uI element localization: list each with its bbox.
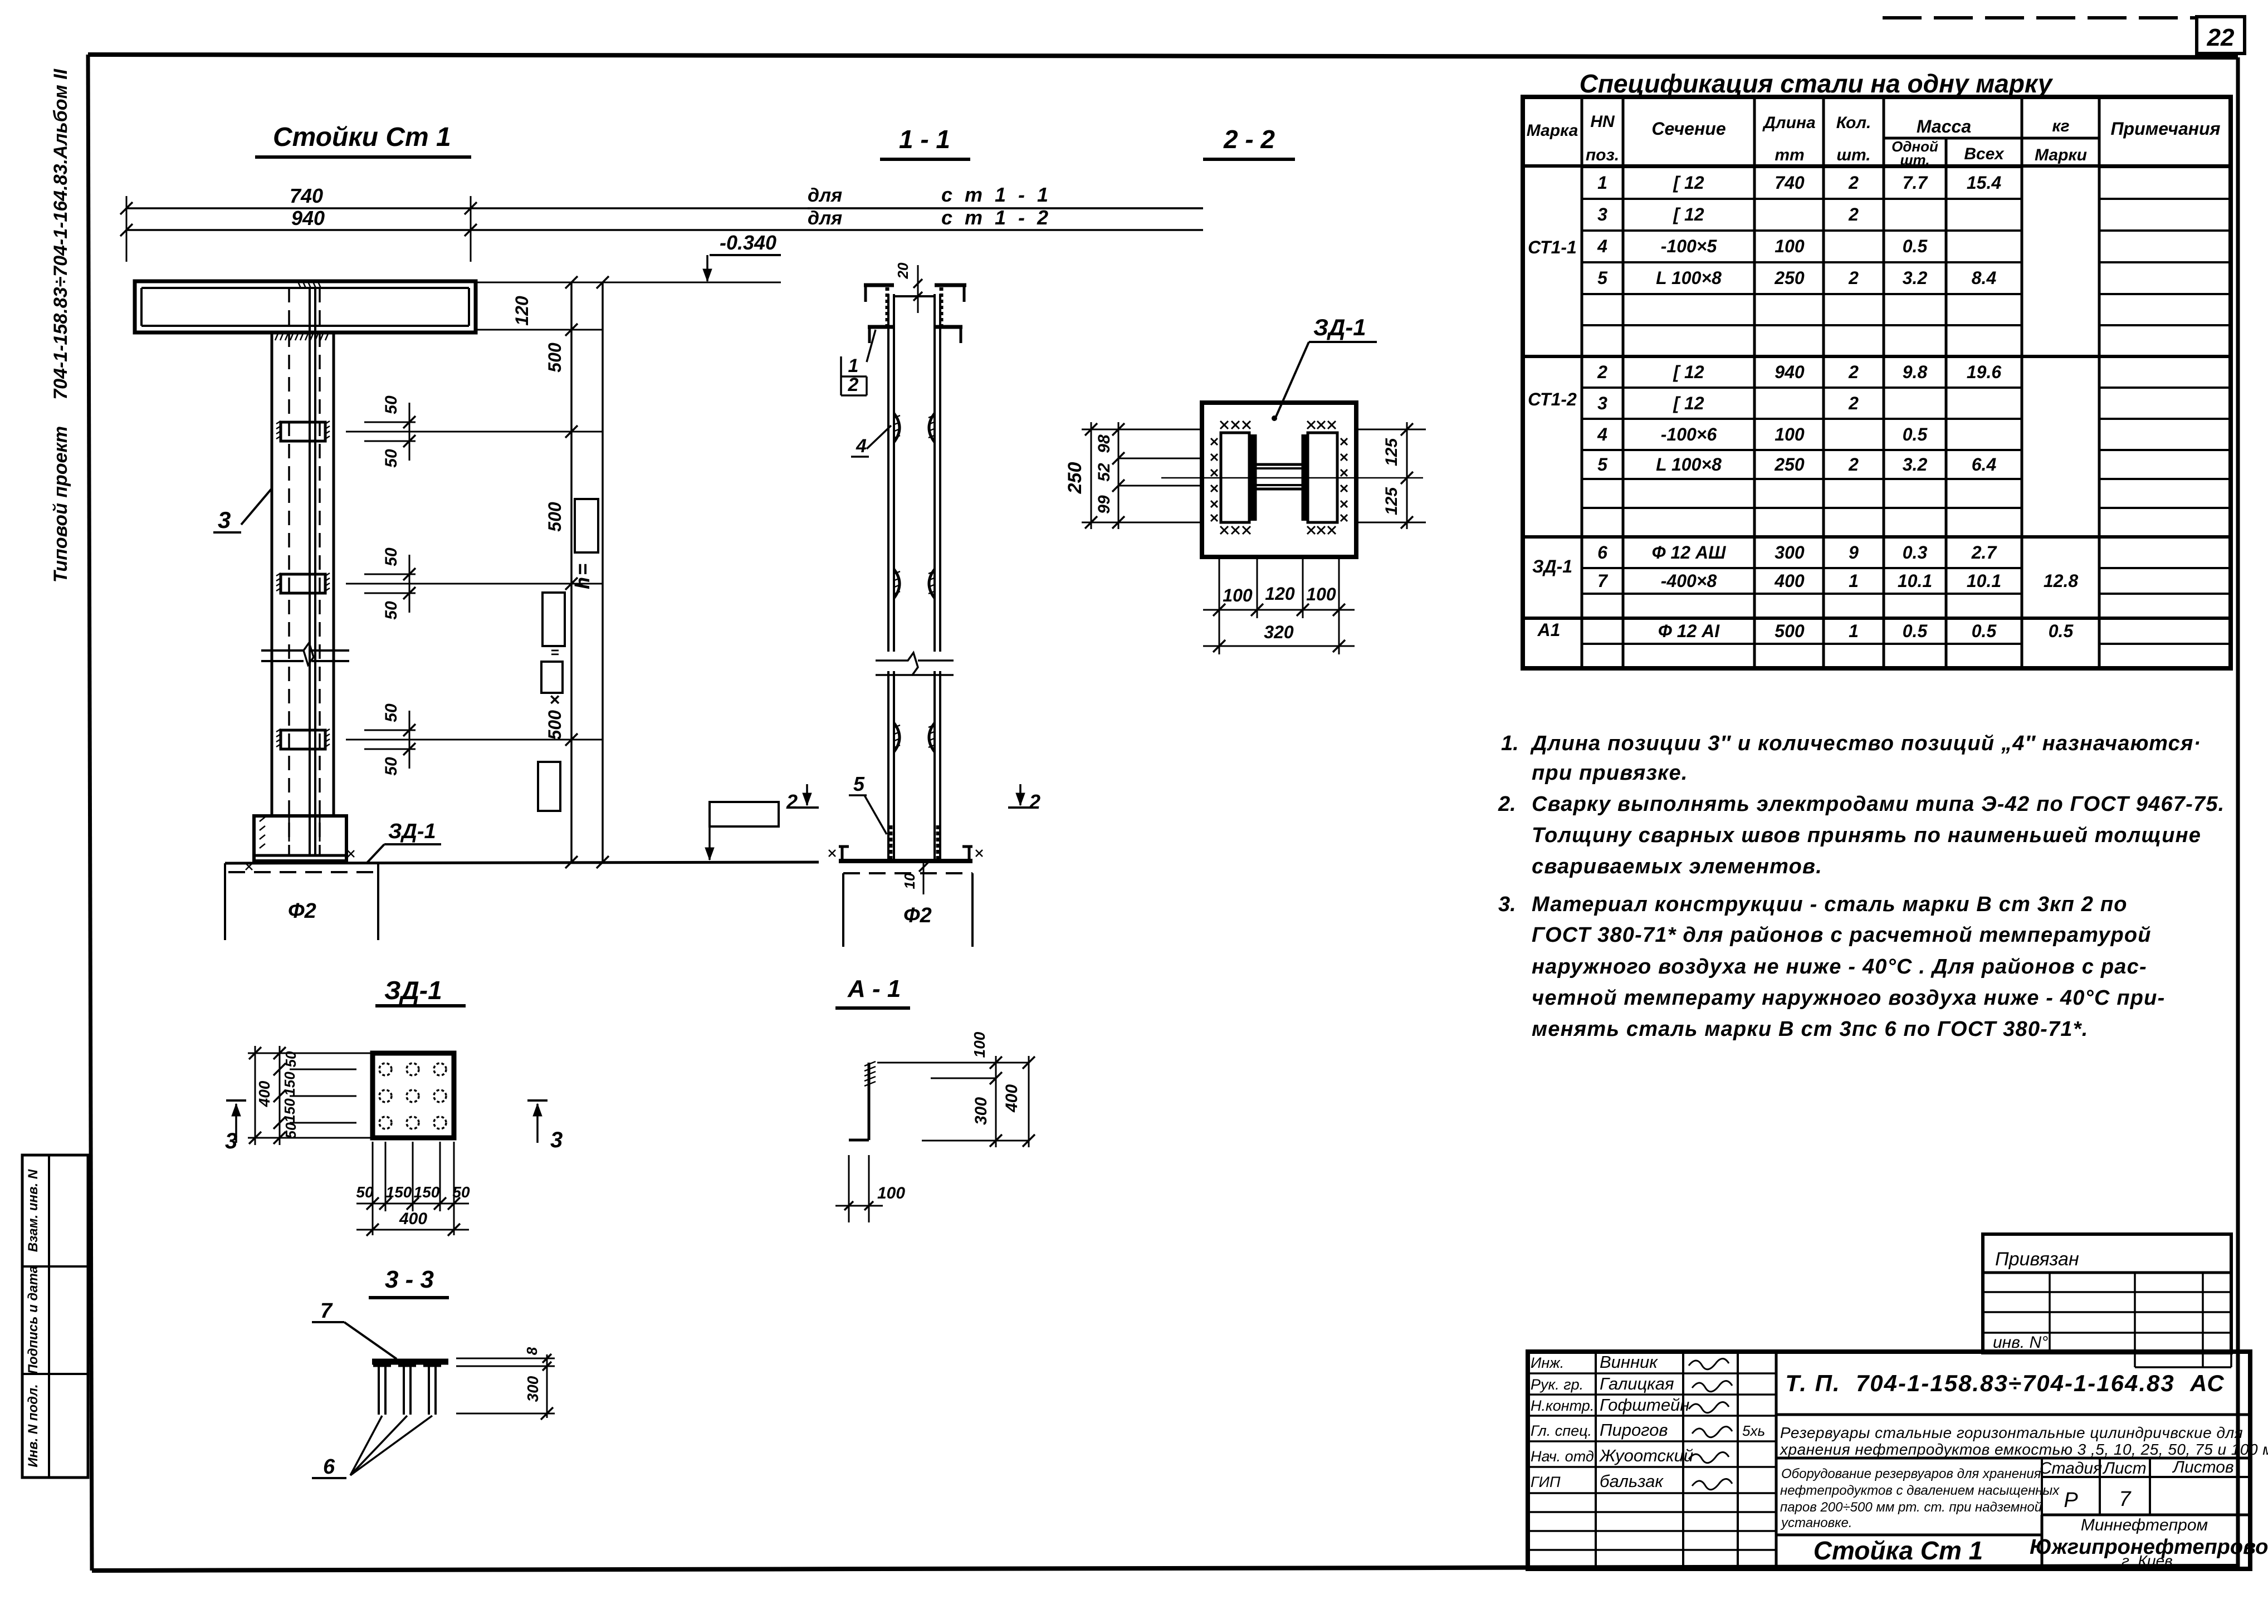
svg-text:Длина позиции 3″ и количест: Длина позиции 3″ и количество позиций „4… bbox=[1530, 732, 2201, 755]
svg-text:для: для bbox=[808, 208, 842, 229]
svg-text:100: 100 bbox=[877, 1184, 905, 1202]
svg-text:500: 500 bbox=[545, 502, 565, 532]
svg-text:5: 5 bbox=[1597, 454, 1608, 475]
svg-text:50: 50 bbox=[382, 601, 400, 620]
svg-text:для: для bbox=[808, 185, 842, 206]
svg-text:Сварку выполнять электродами: Сварку выполнять электродами типа Э-42 п… bbox=[1532, 793, 2225, 816]
svg-text:250: 250 bbox=[1064, 462, 1086, 495]
svg-text:шт.: шт. bbox=[1900, 151, 1929, 168]
svg-text:L 100×8: L 100×8 bbox=[1656, 268, 1722, 288]
svg-text:5: 5 bbox=[1597, 268, 1608, 288]
svg-text:740: 740 bbox=[1775, 173, 1805, 193]
svg-text:2: 2 bbox=[1848, 173, 1859, 193]
svg-text:7: 7 bbox=[320, 1299, 333, 1323]
svg-text:1: 1 bbox=[848, 355, 859, 376]
svg-text:менять сталь марки В ст 3п: менять сталь марки В ст 3пс 6 по ГОСТ 38… bbox=[1532, 1018, 2088, 1041]
svg-text:Привязан: Привязан bbox=[1995, 1249, 2079, 1270]
svg-text:100: 100 bbox=[1775, 236, 1805, 256]
svg-text:400: 400 bbox=[1003, 1084, 1021, 1113]
svg-text:8.4: 8.4 bbox=[1972, 268, 1997, 288]
svg-text:50: 50 bbox=[452, 1183, 470, 1201]
svg-text:Типовой проект 704-1-158.: Типовой проект 704-1-158.83÷704-1-164.83… bbox=[50, 68, 71, 583]
svg-text:СТ1-1: СТ1-1 bbox=[1528, 237, 1577, 257]
svg-text:8: 8 bbox=[524, 1347, 540, 1355]
svg-text:125: 125 bbox=[1382, 438, 1401, 466]
svg-text:Лист: Лист bbox=[2102, 1459, 2146, 1478]
svg-text:А - 1: А - 1 bbox=[847, 975, 901, 1002]
svg-text:320: 320 bbox=[1264, 622, 1294, 642]
svg-text:Стойки Ст 1: Стойки Ст 1 bbox=[273, 123, 451, 152]
svg-text:ЗД-1: ЗД-1 bbox=[384, 976, 442, 1005]
svg-text:4: 4 bbox=[856, 436, 867, 457]
svg-text:СТ1-2: СТ1-2 bbox=[1528, 389, 1577, 409]
svg-text:50: 50 bbox=[382, 395, 400, 414]
svg-text:Всех: Всех bbox=[1964, 145, 2005, 163]
svg-text:кг: кг bbox=[2052, 117, 2069, 135]
svg-text:Винник: Винник bbox=[1600, 1352, 1658, 1372]
svg-text:нефтепродуктов с двалением нас: нефтепродуктов с двалением насыщенных bbox=[1780, 1483, 2060, 1498]
svg-text:h =: h = bbox=[571, 564, 594, 589]
svg-text:15.4: 15.4 bbox=[1967, 173, 2001, 193]
svg-text:ЗД-1: ЗД-1 bbox=[1313, 314, 1366, 340]
svg-text:ГОСТ 380-71* для районов с: ГОСТ 380-71* для районов с расчетной тем… bbox=[1532, 923, 2152, 947]
svg-text:=: = bbox=[550, 644, 559, 661]
svg-text:50: 50 bbox=[282, 1122, 299, 1138]
svg-text:150: 150 bbox=[281, 1098, 298, 1123]
svg-text:Листов: Листов bbox=[2172, 1458, 2233, 1476]
svg-text:2: 2 bbox=[786, 790, 798, 813]
svg-text:5: 5 bbox=[853, 772, 865, 795]
svg-text:0.5: 0.5 bbox=[1903, 236, 1928, 256]
svg-text:Длина: Длина bbox=[1762, 114, 1815, 132]
svg-text:-100×6: -100×6 bbox=[1661, 424, 1717, 444]
svg-text:Сечение: Сечение bbox=[1651, 119, 1726, 139]
svg-text:6.4: 6.4 bbox=[1972, 454, 1997, 475]
svg-text:2.: 2. bbox=[1498, 793, 1516, 816]
svg-text:наружного воздуха не ниже -: наружного воздуха не ниже - 40°С . Для р… bbox=[1532, 955, 2147, 979]
svg-text:0.5: 0.5 bbox=[1903, 424, 1928, 444]
svg-text:500 ×: 500 × bbox=[545, 695, 565, 740]
svg-text:[ 12: [ 12 bbox=[1673, 362, 1704, 382]
svg-text:Ф 12 АІ: Ф 12 АІ bbox=[1658, 621, 1720, 641]
svg-text:10: 10 bbox=[901, 873, 918, 889]
svg-text:Спецификация стали на одну: Спецификация стали на одну марку bbox=[1580, 69, 2054, 98]
svg-text:250: 250 bbox=[1774, 454, 1805, 475]
svg-text:400: 400 bbox=[399, 1210, 427, 1228]
svg-text:740: 740 bbox=[290, 184, 323, 207]
svg-text:2: 2 bbox=[1848, 362, 1859, 382]
svg-text:установке.: установке. bbox=[1780, 1515, 1852, 1530]
svg-text:300: 300 bbox=[1775, 542, 1805, 562]
svg-text:-0.340: -0.340 bbox=[720, 231, 776, 254]
svg-text:250: 250 bbox=[1774, 268, 1805, 288]
svg-text:22: 22 bbox=[2207, 24, 2235, 51]
svg-text:Масса: Масса bbox=[1917, 116, 1971, 136]
svg-text:Стойка Ст 1: Стойка Ст 1 bbox=[1814, 1536, 1983, 1565]
svg-text:[ 12: [ 12 bbox=[1673, 393, 1704, 413]
svg-text:Кол.: Кол. bbox=[1836, 114, 1871, 132]
svg-text:ЗД-1: ЗД-1 bbox=[388, 820, 436, 843]
svg-text:10.1: 10.1 bbox=[1898, 571, 1932, 591]
svg-text:Материал конструкции - сталь: Материал конструкции - сталь марки В ст … bbox=[1532, 893, 2128, 916]
svg-text:3: 3 bbox=[1597, 393, 1607, 413]
svg-text:99: 99 bbox=[1095, 495, 1113, 514]
svg-text:инв. N°: инв. N° bbox=[1993, 1333, 2048, 1352]
svg-text:50: 50 bbox=[382, 703, 400, 722]
svg-text:Инв. N подл.: Инв. N подл. bbox=[26, 1384, 41, 1467]
svg-text:Взам. инв. N: Взам. инв. N bbox=[26, 1169, 41, 1252]
svg-text:-100×5: -100×5 bbox=[1661, 236, 1718, 256]
svg-text:940: 940 bbox=[291, 207, 325, 229]
svg-text:хранения нефтепродуктов емкост: хранения нефтепродуктов емкостью 3 ,5, 1… bbox=[1779, 1441, 2268, 1458]
svg-text:50: 50 bbox=[356, 1183, 374, 1201]
svg-text:52: 52 bbox=[1095, 463, 1113, 482]
svg-text:940: 940 bbox=[1775, 362, 1805, 382]
svg-text:150: 150 bbox=[386, 1183, 412, 1201]
svg-text:2: 2 bbox=[1848, 454, 1859, 475]
svg-text:mm: mm bbox=[1775, 146, 1804, 164]
svg-text:Толщину сварных швов принят: Толщину сварных швов принять по наименьш… bbox=[1532, 824, 2201, 847]
svg-text:[ 12: [ 12 bbox=[1673, 173, 1704, 193]
svg-text:ГИП: ГИП bbox=[1531, 1474, 1561, 1490]
svg-text:400: 400 bbox=[256, 1080, 273, 1107]
svg-text:Т. П. 704-1-158.83÷704-1-164.: Т. П. 704-1-158.83÷704-1-164.83 АС bbox=[1785, 1370, 2225, 1396]
svg-text:четной температу наружного: четной температу наружного воздуха ниже … bbox=[1532, 986, 2165, 1010]
svg-text:Гл. спец.: Гл. спец. bbox=[1531, 1422, 1592, 1439]
svg-text:0.3: 0.3 bbox=[1903, 542, 1928, 562]
svg-text:125: 125 bbox=[1382, 487, 1401, 515]
svg-text:Ф2: Ф2 bbox=[288, 899, 316, 923]
svg-text:Рук. гр.: Рук. гр. bbox=[1531, 1376, 1583, 1393]
svg-text:3.: 3. bbox=[1498, 893, 1516, 916]
svg-text:100: 100 bbox=[1223, 585, 1253, 605]
svg-text:2: 2 bbox=[1848, 393, 1859, 413]
svg-text:А1: А1 bbox=[1537, 620, 1561, 640]
svg-text:6: 6 bbox=[323, 1455, 335, 1479]
svg-text:2: 2 bbox=[1597, 362, 1607, 382]
svg-text:Примечания: Примечания bbox=[2111, 119, 2221, 139]
svg-text:Инж.: Инж. bbox=[1531, 1354, 1564, 1371]
svg-text:19.6: 19.6 bbox=[1967, 362, 2001, 382]
svg-text:100: 100 bbox=[971, 1031, 988, 1058]
svg-text:-400×8: -400×8 bbox=[1661, 571, 1717, 591]
svg-text:2: 2 bbox=[1848, 204, 1859, 224]
svg-text:шт.: шт. bbox=[1836, 146, 1870, 164]
svg-text:2: 2 bbox=[1029, 790, 1040, 813]
svg-text:98: 98 bbox=[1095, 434, 1113, 453]
svg-text:Галицкая: Галицкая bbox=[1600, 1374, 1674, 1393]
svg-text:2 - 2: 2 - 2 bbox=[1223, 125, 1275, 154]
svg-text:500: 500 bbox=[1775, 621, 1805, 641]
svg-text:7: 7 bbox=[1597, 571, 1609, 591]
svg-text:Резервуары стальные горизонтал: Резервуары стальные горизонтальные цилин… bbox=[1780, 1424, 2243, 1441]
svg-text:1.: 1. bbox=[1501, 732, 1519, 755]
svg-text:паров 200÷500 мм рт. ст. при н: паров 200÷500 мм рт. ст. при надземной bbox=[1780, 1500, 2042, 1515]
svg-text:ЗД-1: ЗД-1 bbox=[1532, 556, 1572, 576]
svg-text:1: 1 bbox=[1597, 173, 1607, 193]
svg-text:Стадия: Стадия bbox=[2040, 1459, 2102, 1478]
svg-text:150: 150 bbox=[414, 1183, 440, 1201]
svg-text:100: 100 bbox=[1306, 584, 1336, 604]
svg-text:1 - 1: 1 - 1 bbox=[899, 125, 950, 154]
svg-text:3 - 3: 3 - 3 bbox=[385, 1266, 434, 1293]
svg-text:100: 100 bbox=[1775, 424, 1805, 444]
svg-text:L 100×8: L 100×8 bbox=[1656, 454, 1722, 475]
svg-text:Гофштейн: Гофштейн bbox=[1600, 1395, 1689, 1415]
svg-text:300: 300 bbox=[972, 1097, 990, 1125]
svg-text:9.8: 9.8 bbox=[1903, 362, 1928, 382]
svg-text:ст1-2: ст1-2 bbox=[941, 206, 1060, 229]
svg-text:3: 3 bbox=[550, 1128, 563, 1152]
svg-text:ст1-1: ст1-1 bbox=[941, 183, 1060, 206]
svg-text:50: 50 bbox=[382, 757, 400, 776]
svg-text:5хь: 5хь bbox=[1742, 1422, 1765, 1439]
svg-text:3.2: 3.2 bbox=[1903, 454, 1928, 475]
svg-text:Миннефтепром: Миннефтепром bbox=[2081, 1516, 2208, 1534]
svg-text:50: 50 bbox=[382, 449, 400, 468]
svg-text:120: 120 bbox=[1265, 584, 1295, 604]
svg-text:0.5: 0.5 bbox=[2049, 621, 2074, 641]
svg-text:3: 3 bbox=[218, 507, 231, 533]
svg-text:2.7: 2.7 bbox=[1971, 542, 1998, 562]
svg-text:Ф2: Ф2 bbox=[903, 904, 932, 927]
svg-text:Н.контр.: Н.контр. bbox=[1531, 1397, 1594, 1414]
svg-text:0.5: 0.5 bbox=[1903, 621, 1928, 641]
svg-text:Жуоотский: Жуоотский bbox=[1599, 1446, 1693, 1465]
svg-text:4: 4 bbox=[1597, 236, 1607, 256]
svg-text:1: 1 bbox=[1849, 571, 1859, 591]
svg-text:150: 150 bbox=[281, 1072, 298, 1096]
svg-text:поз.: поз. bbox=[1586, 146, 1619, 164]
svg-text:Ф 12 АШ: Ф 12 АШ bbox=[1652, 542, 1726, 562]
svg-text:12.8: 12.8 bbox=[2044, 571, 2078, 591]
svg-text:1: 1 bbox=[1849, 621, 1859, 641]
svg-text:20: 20 bbox=[895, 262, 911, 279]
svg-text:300: 300 bbox=[524, 1376, 541, 1402]
svg-text:[ 12: [ 12 bbox=[1673, 204, 1704, 224]
svg-text:Марка: Марка bbox=[1527, 121, 1578, 140]
svg-text:3.2: 3.2 bbox=[1903, 268, 1928, 288]
svg-text:НN: НN bbox=[1590, 112, 1615, 131]
svg-text:4: 4 bbox=[1597, 424, 1607, 444]
svg-text:Марки: Марки bbox=[2035, 146, 2087, 164]
svg-text:0.5: 0.5 bbox=[1972, 621, 1997, 641]
svg-text:Пирогов: Пирогов bbox=[1600, 1420, 1668, 1440]
svg-text:9: 9 bbox=[1849, 542, 1859, 562]
svg-text:Подпись и дата: Подпись и дата bbox=[26, 1266, 41, 1374]
svg-text:6: 6 bbox=[1597, 542, 1607, 562]
svg-text:7.7: 7.7 bbox=[1903, 173, 1929, 193]
svg-text:10.1: 10.1 bbox=[1967, 571, 2001, 591]
svg-text:120: 120 bbox=[512, 296, 532, 326]
svg-text:7: 7 bbox=[2119, 1488, 2132, 1511]
svg-text:Нач. отд: Нач. отд bbox=[1531, 1448, 1594, 1465]
svg-text:бальзак: бальзак bbox=[1600, 1471, 1664, 1491]
svg-text:3: 3 bbox=[1597, 204, 1607, 224]
svg-text:Оборудование резервуаров для х: Оборудование резервуаров для хранения bbox=[1781, 1466, 2041, 1481]
svg-text:400: 400 bbox=[1774, 571, 1805, 591]
svg-text:50: 50 bbox=[382, 547, 400, 566]
svg-text:г. Киев: г. Киев bbox=[2122, 1552, 2173, 1569]
svg-text:Р: Р bbox=[2064, 1489, 2078, 1512]
svg-text:при привязке.: при привязке. bbox=[1532, 761, 1688, 785]
svg-text:500: 500 bbox=[545, 343, 565, 373]
svg-text:2: 2 bbox=[1848, 268, 1859, 288]
svg-text:свариваемых элементов.: свариваемых элементов. bbox=[1532, 855, 1822, 878]
